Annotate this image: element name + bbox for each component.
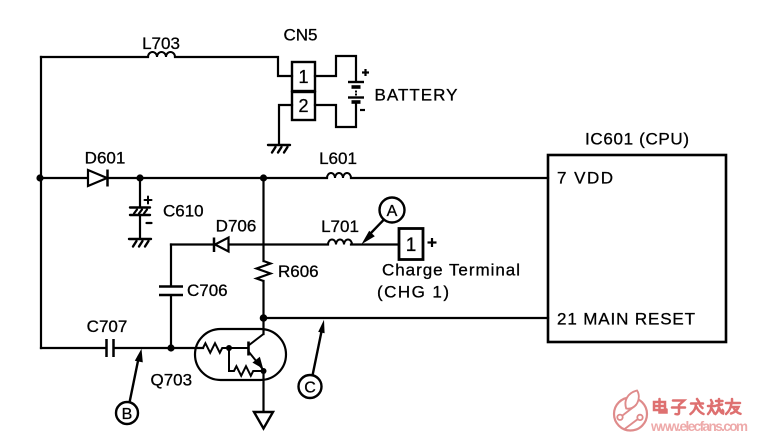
svg-text:C706: C706	[187, 281, 228, 300]
svg-text:R606: R606	[278, 262, 319, 281]
svg-text:1: 1	[298, 67, 308, 87]
svg-text:C707: C707	[87, 317, 128, 336]
svg-text:L701: L701	[321, 217, 359, 236]
svg-text:A: A	[387, 203, 398, 220]
svg-text:D601: D601	[85, 149, 126, 168]
svg-text:L601: L601	[319, 149, 357, 168]
svg-text:B: B	[122, 406, 133, 423]
svg-text:(CHG 1): (CHG 1)	[377, 283, 449, 302]
svg-text:7 VDD: 7 VDD	[557, 169, 613, 188]
svg-text:CN5: CN5	[283, 26, 317, 45]
svg-text:www.elecfans.com: www.elecfans.com	[650, 419, 748, 434]
svg-text:Charge Terminal: Charge Terminal	[382, 261, 520, 280]
svg-text:Q703: Q703	[151, 371, 193, 390]
svg-text:2: 2	[298, 96, 308, 116]
svg-text:C: C	[304, 380, 316, 397]
svg-text:D706: D706	[216, 217, 257, 236]
svg-text:BATTERY: BATTERY	[375, 86, 458, 105]
svg-text:C610: C610	[163, 202, 204, 221]
svg-text:IC601 (CPU): IC601 (CPU)	[585, 130, 689, 149]
svg-text:21 MAIN RESET: 21 MAIN RESET	[557, 310, 695, 329]
svg-text:1: 1	[406, 235, 417, 256]
svg-text:L703: L703	[142, 34, 180, 53]
